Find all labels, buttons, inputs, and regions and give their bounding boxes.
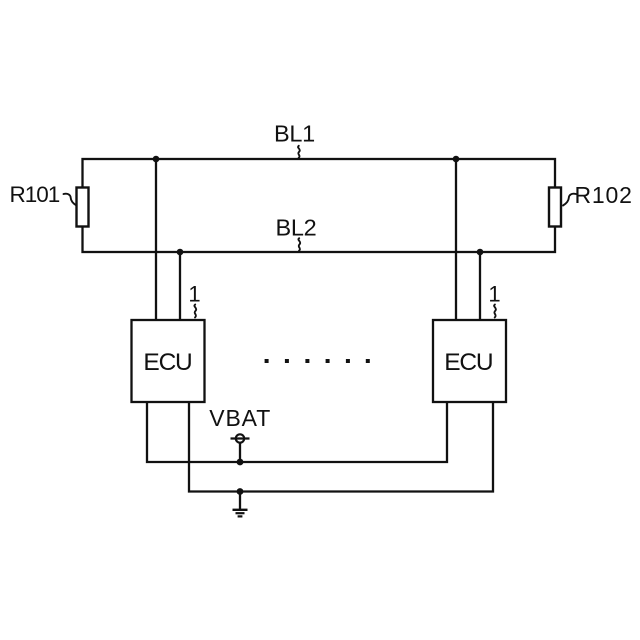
svg-text:1: 1 [188,282,200,307]
svg-text:R102: R102 [575,182,633,208]
svg-text:ECU: ECU [143,349,191,376]
svg-text:BL2: BL2 [276,215,317,241]
svg-text:R101: R101 [10,182,60,207]
svg-text:1: 1 [488,282,500,307]
svg-text:BL1: BL1 [274,121,315,147]
svg-text:VBAT: VBAT [209,405,271,431]
svg-text:ECU: ECU [444,349,492,376]
